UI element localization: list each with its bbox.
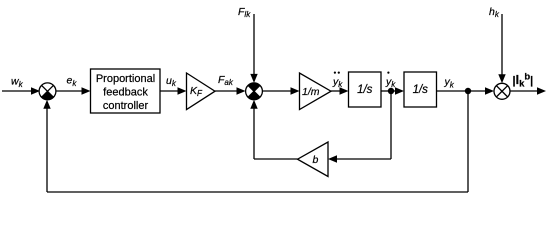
- node junction dot (velocity): [388, 88, 394, 94]
- svg-text:1/m: 1/m: [302, 86, 320, 98]
- gain K_F (triangle): [187, 73, 216, 110]
- integrator block I2: 1/s: [404, 72, 437, 107]
- wire outer feedback y_k to S1: [43, 91, 468, 192]
- wire F_lk input (vertical from top): [250, 14, 257, 83]
- controller block: Proportional feedback controller: [91, 69, 161, 113]
- wire 1/m to integrator I1: [331, 87, 349, 94]
- wire h_k input (vertical from top): [498, 14, 505, 83]
- wire S2 to 1/m: [262, 87, 299, 94]
- node label y''_k (acceleration): [332, 72, 343, 90]
- summing junction S2 (top and bottom quadrants filled): [246, 83, 263, 100]
- arrowhead into S3: [485, 87, 494, 94]
- svg-text:Proportional: Proportional: [96, 73, 155, 85]
- gain 1/m (triangle): [300, 73, 332, 110]
- svg-text:1/s: 1/s: [357, 84, 373, 96]
- gain b (triangle pointing left): [298, 142, 329, 177]
- wire w_k input: [2, 87, 40, 94]
- wire K_F to S2: [215, 87, 246, 94]
- summing junction S1 (bottom quadrant filled, minus feedback): [39, 83, 56, 100]
- wire I2 to S3: [437, 90, 486, 92]
- node junction dot y_k: [465, 88, 471, 94]
- svg-text:feedback: feedback: [103, 87, 148, 99]
- wire controller to K_F: [160, 87, 187, 94]
- svg-text:controller: controller: [103, 100, 149, 112]
- wire gain b to S2 (up into bottom): [250, 100, 297, 159]
- summing junction S3 (plain): [494, 83, 510, 99]
- svg-text:1/s: 1/s: [413, 84, 429, 96]
- wire I1 to I2: [381, 87, 404, 94]
- wire velocity node down to gain b: [328, 91, 391, 163]
- integrator block I1: 1/s: [349, 72, 382, 107]
- node label y'_k (velocity): [385, 72, 396, 90]
- wire output: [510, 87, 546, 94]
- wire S1 to controller: [56, 87, 91, 94]
- svg-text:b: b: [313, 154, 319, 166]
